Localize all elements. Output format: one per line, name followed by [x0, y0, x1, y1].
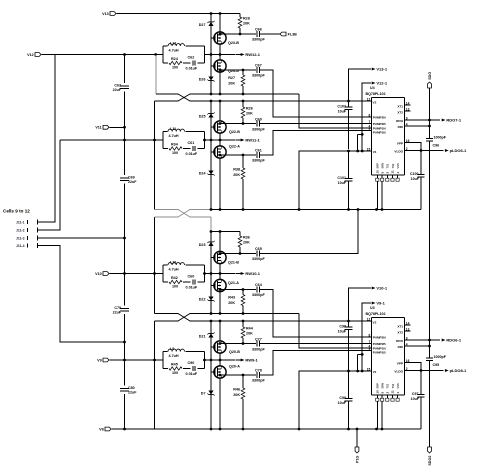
svg-text:11: 11 — [391, 390, 395, 394]
svg-text:PUMP2B: PUMP2B — [373, 122, 387, 126]
junction V1-C99 — [347, 370, 350, 373]
net V12-1 — [371, 82, 373, 84]
svg-text:R42: R42 — [171, 276, 178, 280]
svg-text:SDO2: SDO2 — [428, 456, 432, 466]
svg-text:BQ78PL102: BQ78PL102 — [366, 312, 386, 316]
svg-text:3300pF: 3300pF — [252, 379, 265, 383]
wire Q20-B drain node — [220, 343, 256, 345]
junction — [210, 359, 213, 362]
junction — [242, 93, 245, 96]
wire V13 rail — [116, 13, 240, 15]
diode D22 — [208, 296, 213, 300]
terminal V8 — [105, 427, 111, 431]
svg-text:1000pF: 1000pF — [434, 135, 447, 139]
svg-text:FL3B: FL3B — [288, 32, 298, 36]
junction — [242, 122, 245, 125]
svg-text:22uF: 22uF — [113, 88, 122, 92]
net RW9-1 — [236, 359, 242, 361]
junction — [219, 374, 222, 377]
wire gate column block3 — [210, 232, 212, 314]
capacitor C66 — [256, 31, 258, 37]
svg-text:D21: D21 — [199, 335, 206, 339]
svg-text:SDO: SDO — [428, 72, 432, 80]
wire J11-3 to V10 net — [38, 237, 125, 239]
svg-text:Q20-B: Q20-B — [229, 350, 240, 354]
wire Q22-A source node — [220, 154, 256, 156]
svg-text:XT2: XT2 — [397, 330, 403, 334]
svg-text:TS1: TS1 — [386, 163, 390, 168]
capacitor C61 — [256, 152, 258, 158]
wire U3 PUMP1B stub — [358, 353, 363, 355]
svg-text:20K: 20K — [243, 22, 250, 26]
junction VLDO2-C97 — [420, 369, 423, 372]
terminal FL3B — [280, 32, 286, 36]
svg-text:22uF: 22uF — [128, 180, 137, 184]
transistor Q20-B — [214, 341, 226, 353]
net V9-1 — [371, 302, 373, 304]
diode D27 — [208, 22, 213, 26]
junction — [210, 230, 213, 233]
junction — [219, 33, 222, 36]
svg-text:V1: V1 — [373, 150, 377, 154]
net VLDO8-1 — [445, 370, 447, 372]
op-amp U3 BQ78PL102 — [371, 317, 404, 319]
svg-text:R34: R34 — [171, 142, 179, 146]
junction — [219, 139, 222, 142]
svg-text:V2: V2 — [373, 320, 377, 324]
wire RW11-1 node — [205, 139, 236, 141]
svg-text:VLDO: VLDO — [394, 370, 403, 374]
capacitor C64 — [256, 287, 258, 293]
svg-text:V13: V13 — [102, 12, 109, 16]
wire RW12-1 node — [205, 54, 236, 56]
capacitor C79 — [120, 308, 129, 310]
wire rail upper V1 — [211, 209, 421, 211]
svg-text:8: 8 — [369, 113, 371, 117]
svg-text:L9: L9 — [170, 347, 174, 351]
wire V13-1 to V2 column — [349, 69, 372, 101]
junction — [219, 154, 222, 157]
svg-text:14: 14 — [406, 101, 410, 105]
wire rail block2 top to U4 pin12 — [211, 100, 371, 102]
junction — [347, 100, 350, 103]
wire V12 rail to U4 PUMP1N — [299, 94, 371, 128]
svg-text:RW12-1: RW12-1 — [245, 52, 260, 57]
wire U4 VPP jog — [405, 143, 422, 151]
svg-text:D23: D23 — [199, 243, 206, 247]
svg-text:V1: V1 — [373, 370, 377, 374]
capacitor C97 — [420, 371, 422, 394]
svg-text:4.7uH: 4.7uH — [169, 267, 179, 271]
junction left column — [123, 428, 126, 431]
svg-text:Q21-B: Q21-B — [228, 261, 239, 265]
svg-text:13: 13 — [406, 327, 410, 331]
junction RDO-SDO — [428, 119, 431, 122]
net RW12-1 — [236, 54, 242, 56]
svg-text:V2: V2 — [373, 100, 377, 104]
junction — [219, 69, 222, 72]
svg-text:V10: V10 — [95, 272, 102, 276]
svg-text:RDI: RDI — [398, 125, 403, 129]
wire U4 RDO — [405, 119, 441, 121]
svg-text:Q22-A: Q22-A — [229, 145, 240, 149]
svg-text:100: 100 — [172, 285, 178, 289]
wire RW10-1 node — [205, 273, 236, 275]
svg-text:R27: R27 — [228, 76, 235, 80]
junction — [219, 342, 222, 345]
svg-text:10: 10 — [376, 390, 380, 394]
svg-text:R46: R46 — [233, 388, 240, 392]
svg-text:V12: V12 — [27, 53, 34, 57]
wire U3 V1 pin — [299, 371, 371, 429]
transistor Q21-B — [214, 251, 226, 263]
svg-text:J11-1: J11-1 — [16, 220, 25, 224]
junction left column — [123, 359, 126, 362]
svg-text:10uF: 10uF — [411, 177, 420, 181]
junction — [239, 252, 242, 255]
terminal V12 — [35, 53, 41, 57]
junction — [242, 69, 245, 72]
svg-text:V13-1: V13-1 — [376, 67, 387, 72]
wire V10 rail to U3 PUMP1N — [299, 314, 371, 349]
svg-text:V9: V9 — [97, 358, 102, 362]
transistor Q23-A — [214, 60, 226, 72]
svg-text:20K: 20K — [233, 173, 240, 177]
junction — [219, 12, 222, 15]
svg-text:Cells 9 to 12: Cells 9 to 12 — [3, 209, 30, 214]
wire gate column block2 — [210, 101, 212, 210]
svg-text:V8: V8 — [99, 427, 104, 431]
wire left boundary middle — [154, 217, 156, 314]
wire Q23-A source node — [220, 69, 256, 71]
svg-text:0.01uF: 0.01uF — [186, 286, 198, 290]
svg-text:Q23-B: Q23-B — [228, 41, 239, 45]
capacitor C77 — [256, 341, 258, 347]
wire J11-4 to V9 net — [38, 246, 125, 343]
junction — [298, 208, 301, 211]
net V13-1 — [371, 68, 373, 70]
svg-text:C65: C65 — [255, 247, 262, 251]
wire V8 to bottom rail — [111, 428, 124, 430]
junction left column — [123, 341, 126, 344]
svg-text:C90: C90 — [188, 361, 195, 365]
wire C60 to U4 PUMP2B — [260, 123, 371, 125]
svg-text:22uF: 22uF — [113, 310, 122, 314]
junction left column — [123, 126, 126, 129]
svg-text:12: 12 — [367, 317, 371, 321]
terminal V13 — [110, 12, 116, 16]
svg-text:TS1: TS1 — [386, 383, 390, 388]
svg-text:Q22-B: Q22-B — [229, 130, 240, 134]
wire Q21-A source node — [220, 289, 256, 291]
svg-text:SRP: SRP — [376, 163, 380, 169]
wire left column V9 segment — [124, 314, 126, 386]
junction — [203, 139, 206, 142]
transistor Q22-A — [214, 146, 226, 158]
svg-text:RDO: RDO — [396, 339, 403, 343]
svg-text:BQ78PL102: BQ78PL102 — [366, 92, 386, 96]
junction — [219, 53, 222, 56]
wire V11 stub — [109, 126, 124, 128]
net RW10-1 — [236, 273, 242, 275]
svg-text:12: 12 — [367, 97, 371, 101]
svg-text:3300pF: 3300pF — [252, 74, 265, 78]
svg-text:C78: C78 — [255, 368, 262, 372]
svg-text:Q20-A: Q20-A — [229, 365, 240, 369]
svg-text:PUMP2B: PUMP2B — [373, 342, 387, 346]
svg-text:4.7uH: 4.7uH — [169, 354, 179, 358]
svg-text:R26: R26 — [246, 107, 253, 111]
capacitor C67 — [256, 67, 258, 73]
diode D7 — [208, 390, 213, 394]
svg-text:C66: C66 — [255, 27, 262, 31]
svg-text:4.7uH: 4.7uH — [169, 134, 179, 138]
svg-text:20K: 20K — [228, 82, 235, 86]
wire J11-2 feed to filter L11 — [60, 139, 163, 141]
junction — [219, 93, 222, 96]
wire U3 VPP jog — [405, 363, 422, 371]
junction — [219, 312, 222, 315]
svg-text:14: 14 — [406, 321, 410, 325]
svg-text:R43: R43 — [228, 296, 235, 300]
wire U3 RDO — [405, 339, 441, 341]
svg-text:C100: C100 — [410, 172, 419, 176]
junction — [242, 374, 245, 377]
resistor R44 — [242, 321, 244, 327]
junction RDI2 — [428, 345, 431, 348]
svg-text:20K: 20K — [246, 112, 253, 116]
svg-text:10uF: 10uF — [338, 401, 347, 405]
svg-text:RDI: RDI — [398, 345, 403, 349]
junction left column — [123, 139, 126, 142]
wire rail block4 top to U3 pin12 — [211, 320, 371, 322]
svg-text:20K: 20K — [233, 393, 240, 397]
diode D23 — [208, 242, 213, 246]
svg-text:3300pF: 3300pF — [252, 159, 265, 163]
svg-text:U3: U3 — [370, 306, 375, 310]
svg-text:C64: C64 — [255, 283, 263, 287]
junction — [381, 428, 384, 431]
capacitor C99 — [348, 371, 350, 398]
svg-text:pLDO8-1: pLDO8-1 — [450, 368, 467, 373]
resistor R28 — [239, 14, 241, 18]
svg-text:7: 7 — [369, 340, 371, 344]
svg-text:C101: C101 — [337, 176, 346, 180]
svg-text:L10: L10 — [170, 260, 176, 264]
inductor L10 filter (L10 R42 C60) — [163, 264, 205, 266]
junction — [219, 288, 222, 291]
svg-text:3: 3 — [369, 348, 371, 352]
terminal SDO2 — [428, 447, 432, 453]
junction — [219, 272, 222, 275]
wire left boundary upper — [154, 101, 156, 210]
svg-text:10uF: 10uF — [338, 109, 347, 113]
wire left column V10 segment — [124, 183, 126, 305]
svg-text:RDO: RDO — [396, 119, 403, 123]
wire crossover block3-block4 — [155, 313, 179, 315]
svg-text:C77: C77 — [255, 337, 262, 341]
resistor R36 — [239, 232, 241, 237]
svg-text:VLDO: VLDO — [394, 150, 403, 154]
svg-text:SRP: SRP — [376, 383, 380, 389]
svg-text:C95: C95 — [433, 363, 440, 367]
svg-text:P1G: P1G — [355, 455, 359, 463]
wire C64 to U3 PUMP2N — [260, 290, 371, 338]
junction — [375, 428, 378, 431]
svg-text:V12-1: V12-1 — [376, 81, 387, 86]
wire U3 VLDO — [405, 370, 444, 372]
junction — [210, 53, 213, 56]
junction — [219, 252, 222, 255]
svg-text:C61: C61 — [255, 148, 262, 152]
junction — [375, 208, 378, 211]
junction — [210, 428, 213, 431]
svg-text:C102: C102 — [337, 104, 346, 108]
svg-text:4.7uH: 4.7uH — [169, 48, 179, 52]
transistor Q23-B — [214, 32, 226, 44]
junction — [242, 428, 245, 431]
op-amp U4 BQ78PL102 — [371, 97, 404, 99]
junction — [242, 342, 245, 345]
svg-text:TS2: TS2 — [391, 383, 395, 388]
wire C65 riser to V1 rail — [260, 210, 358, 254]
terminal P1G — [355, 447, 359, 453]
capacitor C96 — [426, 138, 433, 140]
svg-text:R28: R28 — [243, 17, 250, 21]
svg-text:D25: D25 — [199, 115, 206, 119]
svg-text:C61: C61 — [188, 141, 195, 145]
junction — [210, 208, 213, 211]
svg-text:13: 13 — [406, 107, 410, 111]
svg-text:7: 7 — [369, 120, 371, 124]
wire SDO chain lower — [429, 361, 431, 447]
wire V12 to filter L12 — [41, 54, 163, 56]
svg-text:RW10-1: RW10-1 — [245, 271, 260, 276]
junction — [239, 33, 242, 36]
svg-text:R45: R45 — [171, 362, 178, 366]
svg-text:XT2: XT2 — [397, 110, 403, 114]
diode D24 — [208, 170, 213, 174]
capacitor C63 — [120, 85, 129, 87]
wire V9 to filter L9 — [109, 359, 163, 361]
junction — [242, 320, 245, 323]
junction VLDO-C100 — [420, 149, 423, 152]
junction — [210, 139, 213, 142]
svg-text:C99: C99 — [339, 396, 346, 400]
wire J11-1 to V12 net — [38, 55, 55, 223]
svg-text:3300pF: 3300pF — [252, 293, 265, 297]
wire left boundary lower — [154, 321, 156, 429]
junction filter L10 input — [153, 272, 156, 275]
svg-text:0.01uF: 0.01uF — [186, 152, 198, 156]
svg-text:22uF: 22uF — [128, 390, 137, 394]
svg-text:D22: D22 — [199, 298, 206, 302]
junction — [219, 359, 222, 362]
svg-text:3300pF: 3300pF — [252, 257, 265, 261]
svg-text:PUMP1B: PUMP1B — [373, 351, 387, 355]
wire gate column block1 — [210, 14, 212, 95]
transistor Q20-A — [214, 366, 226, 378]
junction left column — [123, 272, 126, 275]
junction P1G — [356, 428, 359, 431]
svg-text:0.01uF: 0.01uF — [186, 67, 198, 71]
wire SDO chain middle — [429, 142, 431, 358]
junction — [357, 208, 360, 211]
junction — [219, 428, 222, 431]
capacitor C69 — [120, 177, 129, 179]
svg-text:VPP: VPP — [397, 362, 403, 366]
svg-text:L11: L11 — [170, 127, 176, 131]
svg-text:XT1: XT1 — [397, 104, 403, 108]
junction — [203, 272, 206, 275]
junction — [210, 12, 213, 15]
svg-text:D27: D27 — [199, 23, 206, 27]
svg-text:TS2: TS2 — [391, 163, 395, 168]
svg-text:Q21-A: Q21-A — [228, 281, 239, 285]
svg-text:20K: 20K — [243, 241, 250, 245]
wire grey jog to block3 rail — [210, 217, 212, 232]
resistor R38 — [242, 155, 244, 168]
junction V1-C101 — [347, 150, 350, 153]
svg-text:C60: C60 — [255, 117, 262, 121]
wire drain column block1 — [219, 14, 221, 95]
wire V9-1 drop — [362, 303, 371, 354]
wire U4 PUMP1B stub — [358, 133, 363, 135]
svg-text:100: 100 — [172, 371, 178, 375]
net V10-1 — [371, 287, 373, 289]
svg-text:10: 10 — [376, 170, 380, 174]
wire V10 to filter L10 — [109, 273, 163, 275]
svg-text:R44: R44 — [246, 327, 254, 331]
junction — [210, 320, 213, 323]
transistor Q22-B — [214, 121, 226, 133]
net VLDO6-1 — [445, 150, 447, 152]
resistor R27 — [242, 70, 244, 75]
svg-text:PUMP2N: PUMP2N — [373, 116, 387, 120]
wire J11-2 to V11 net — [38, 140, 60, 230]
svg-text:R36: R36 — [243, 236, 250, 240]
junction — [242, 100, 245, 103]
svg-text:100: 100 — [172, 151, 178, 155]
wire drain column block3 — [219, 232, 221, 314]
terminal V10 — [103, 272, 109, 276]
svg-text:10uF: 10uF — [338, 329, 347, 333]
wire rail block3 top — [211, 231, 240, 233]
net RDO6-1 — [441, 339, 443, 341]
wire Q23-B drain node — [220, 33, 256, 35]
junction left column — [123, 237, 126, 240]
svg-text:PUMP1B: PUMP1B — [373, 131, 387, 135]
wire V12-1 drop — [362, 83, 371, 134]
svg-text:U4: U4 — [370, 86, 375, 90]
junction — [219, 208, 222, 211]
junction — [219, 100, 222, 103]
junction — [347, 208, 350, 211]
terminal V9 — [103, 358, 109, 362]
junction — [210, 312, 213, 315]
svg-text:1000pF: 1000pF — [434, 355, 447, 359]
junction filter L11 input — [153, 139, 156, 142]
wire drain column block4 — [219, 321, 221, 429]
wire C66 to FL3B — [260, 33, 280, 35]
svg-text:SRN: SRN — [381, 383, 385, 389]
inductor L9 filter (L9 R45 C90) — [163, 351, 205, 353]
wire C77 to U3 PUMP2B — [260, 343, 371, 345]
capacitor C80 — [120, 388, 129, 390]
diode D26 — [208, 76, 213, 80]
wire rail block1 bottom V12 — [211, 93, 299, 95]
junction — [210, 272, 213, 275]
